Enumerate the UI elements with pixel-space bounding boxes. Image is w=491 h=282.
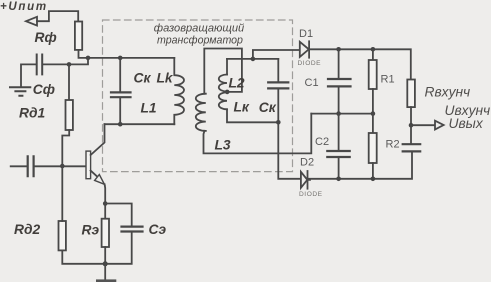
wire tap link top: [204, 49, 242, 94]
node R1 bottom: [371, 111, 376, 116]
node tank cap bottom: [118, 122, 123, 127]
diode D1: [300, 42, 309, 57]
transistor VT1 base bar: [86, 151, 91, 179]
wire C1 top lead: [338, 49, 340, 78]
node output junction: [409, 123, 414, 128]
inductor Lк: [219, 92, 227, 109]
wire node A down to Сф line: [43, 58, 88, 65]
svg-text:L3: L3: [215, 138, 231, 153]
wire Ск primary top lead: [119, 58, 121, 92]
diode D1 cathode bar: [308, 41, 310, 57]
node base junction: [60, 164, 65, 169]
capacitor Сф: [37, 55, 43, 75]
wire R2 bottom lead: [372, 163, 374, 179]
wire output arrow line: [411, 124, 435, 126]
wire L3 bottom to audio line: [204, 114, 312, 154]
node secondary top junction: [251, 57, 256, 62]
svg-text:Сэ: Сэ: [149, 222, 167, 237]
svg-text:R1: R1: [381, 74, 395, 86]
svg-text:Rэ: Rэ: [82, 223, 100, 238]
svg-text:+Uпит: +Uпит: [0, 1, 48, 13]
capacitor input: [28, 156, 34, 176]
wire Rд2 bottom to ground rail: [62, 250, 105, 263]
capacitor C2: [327, 151, 349, 157]
svg-text:фазовращающий: фазовращающий: [154, 23, 244, 35]
resistor R1: [369, 60, 377, 89]
resistor Rэ: [102, 219, 109, 247]
wire secondary top line: [227, 58, 278, 60]
wire R2 top lead: [372, 114, 374, 133]
wire bottom rail: [308, 152, 413, 180]
svg-text:Rвхунч: Rвхунч: [425, 85, 471, 100]
wire C1 bottom lead: [338, 87, 340, 114]
wire L2 top lead: [226, 59, 228, 75]
wire emitter node to Rэ: [104, 204, 106, 219]
wire supply arrow to Rф top: [37, 11, 78, 21]
node C2 bottom: [336, 177, 341, 182]
svg-text:трансформатор: трансформатор: [157, 34, 243, 46]
svg-text:R2: R2: [386, 139, 400, 151]
node A junction: [86, 56, 91, 61]
inductor Lk primary coil: [174, 58, 184, 124]
node tap junction: [225, 90, 230, 95]
wire emitter node to Сэ: [105, 204, 132, 227]
wire to D1: [253, 50, 300, 59]
wire Rф bottom to node A: [79, 50, 89, 58]
dashed transformer box: [103, 20, 293, 172]
node C1 top: [336, 47, 341, 52]
svg-text:Rд2: Rд2: [14, 222, 40, 237]
wire Сф left to ground: [21, 64, 36, 86]
svg-text:L2: L2: [229, 76, 245, 91]
node ground junction: [103, 261, 108, 266]
capacitor C1: [328, 79, 351, 86]
svg-text:L1: L1: [141, 101, 157, 116]
wire to ground bar: [104, 264, 106, 280]
transistor VT1 emitter: [91, 171, 98, 177]
capacitor Ск primary: [111, 92, 131, 97]
wire node A rail to tank: [88, 57, 174, 59]
node R1 top: [371, 47, 376, 52]
wire collector to tank bottom rail: [105, 123, 175, 125]
svg-text:Lk: Lk: [157, 71, 174, 86]
transistor VT1 emitter arrowhead: [95, 175, 105, 185]
node tank cap top: [118, 56, 123, 61]
resistor Rф: [75, 22, 82, 50]
wire C2 top lead: [338, 114, 340, 151]
wire Rвхунч bottom to output node: [410, 107, 412, 125]
svg-text:C1: C1: [305, 77, 319, 89]
node R2 bottom: [371, 177, 376, 182]
svg-text:D2: D2: [300, 156, 314, 168]
diode D2 cathode bar: [307, 171, 309, 189]
node emitter junction: [103, 201, 108, 206]
wire Lк bottom to cap line: [227, 109, 278, 122]
svg-text:Сф: Сф: [33, 82, 55, 97]
capacitor output: [403, 144, 421, 151]
wire R1 top lead: [372, 49, 374, 60]
wire emitter down: [104, 184, 107, 203]
diode D2: [301, 172, 307, 188]
svg-text:C2: C2: [315, 136, 329, 148]
wire Ск secondary top lead: [277, 59, 279, 82]
capacitor Сэ: [122, 227, 143, 232]
wire C2 bottom lead: [338, 158, 340, 179]
svg-text:Uвых: Uвых: [449, 116, 484, 131]
resistor Rд1: [66, 100, 73, 130]
wire Сэ bottom: [105, 232, 132, 264]
svg-text:Ск: Ск: [134, 71, 152, 86]
inductor L3: [196, 94, 206, 131]
wire Rэ bottom: [104, 247, 106, 264]
node C1 bottom: [336, 111, 341, 116]
node Rд1 top junction: [67, 62, 72, 67]
wire middle rail: [311, 113, 373, 115]
transistor VT1 collector: [91, 124, 105, 155]
wire input stub: [11, 165, 27, 167]
output arrow head: [435, 121, 444, 130]
resistor Rд2: [59, 221, 66, 250]
wire Ск secondary bottom to D2: [278, 89, 301, 179]
supply arrow: [26, 17, 37, 26]
resistor Rвхунч: [407, 80, 415, 108]
wire D1 to top rail: [309, 49, 411, 79]
wire Ск primary bottom lead: [119, 98, 121, 124]
node Lк-cap junction: [276, 120, 281, 125]
svg-text:Lк: Lк: [234, 100, 250, 115]
capacitor Ск secondary: [268, 82, 288, 88]
svg-text:Rд1: Rд1: [19, 106, 45, 121]
svg-text:D1: D1: [299, 28, 313, 40]
ground (Сф): [10, 87, 30, 95]
wire Rд1 bottom jog to base line: [62, 130, 69, 166]
wire output node to cap: [410, 125, 412, 144]
svg-text:DIODE: DIODE: [298, 60, 322, 67]
wire R1 bottom lead: [372, 89, 374, 114]
wire junction to Rд1: [68, 64, 70, 100]
wire base node down to Rд2: [61, 166, 63, 221]
wire input cap to base: [35, 165, 86, 167]
svg-text:DIODE: DIODE: [299, 191, 323, 198]
svg-text:Rф: Rф: [35, 30, 57, 45]
resistor R2: [369, 133, 377, 163]
ground bar: [96, 279, 116, 282]
svg-text:Ск: Ск: [259, 100, 277, 115]
inductor L2: [219, 75, 227, 92]
